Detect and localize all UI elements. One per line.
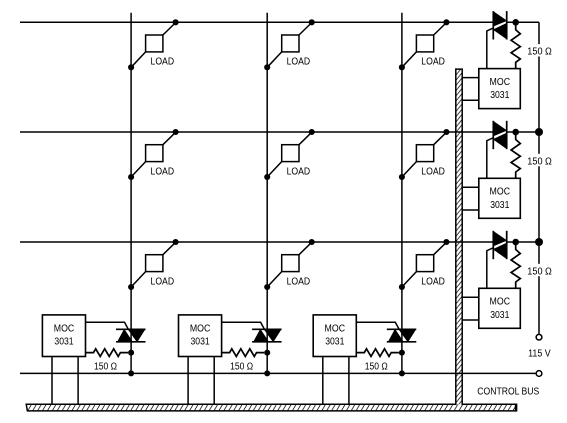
svg-text:MOC: MOC <box>190 323 211 334</box>
svg-text:150 Ω: 150 Ω <box>94 361 117 372</box>
svg-text:LOAD: LOAD <box>421 166 445 177</box>
svg-text:LOAD: LOAD <box>287 166 311 177</box>
svg-text:LOAD: LOAD <box>151 57 175 68</box>
svg-text:MOC: MOC <box>490 297 511 308</box>
svg-text:MOC: MOC <box>490 187 511 198</box>
svg-text:3031: 3031 <box>325 336 345 347</box>
svg-text:MOC: MOC <box>325 323 346 334</box>
svg-text:150 Ω: 150 Ω <box>527 47 552 58</box>
svg-text:150 Ω: 150 Ω <box>527 266 552 277</box>
svg-text:MOC: MOC <box>54 323 75 334</box>
svg-text:3031: 3031 <box>54 336 74 347</box>
svg-text:150 Ω: 150 Ω <box>527 156 552 167</box>
svg-text:150 Ω: 150 Ω <box>365 361 388 372</box>
svg-text:LOAD: LOAD <box>287 276 311 287</box>
svg-text:LOAD: LOAD <box>421 276 445 287</box>
svg-text:3031: 3031 <box>490 200 510 211</box>
svg-text:115 V: 115 V <box>528 348 551 359</box>
svg-text:LOAD: LOAD <box>151 166 175 177</box>
svg-text:MOC: MOC <box>490 77 511 88</box>
svg-text:3031: 3031 <box>490 310 510 321</box>
svg-text:LOAD: LOAD <box>287 57 311 68</box>
svg-text:LOAD: LOAD <box>421 57 445 68</box>
svg-text:CONTROL BUS: CONTROL BUS <box>477 387 539 398</box>
svg-text:150 Ω: 150 Ω <box>230 361 253 372</box>
svg-text:3031: 3031 <box>191 336 211 347</box>
svg-text:3031: 3031 <box>490 90 510 101</box>
svg-text:LOAD: LOAD <box>151 276 175 287</box>
